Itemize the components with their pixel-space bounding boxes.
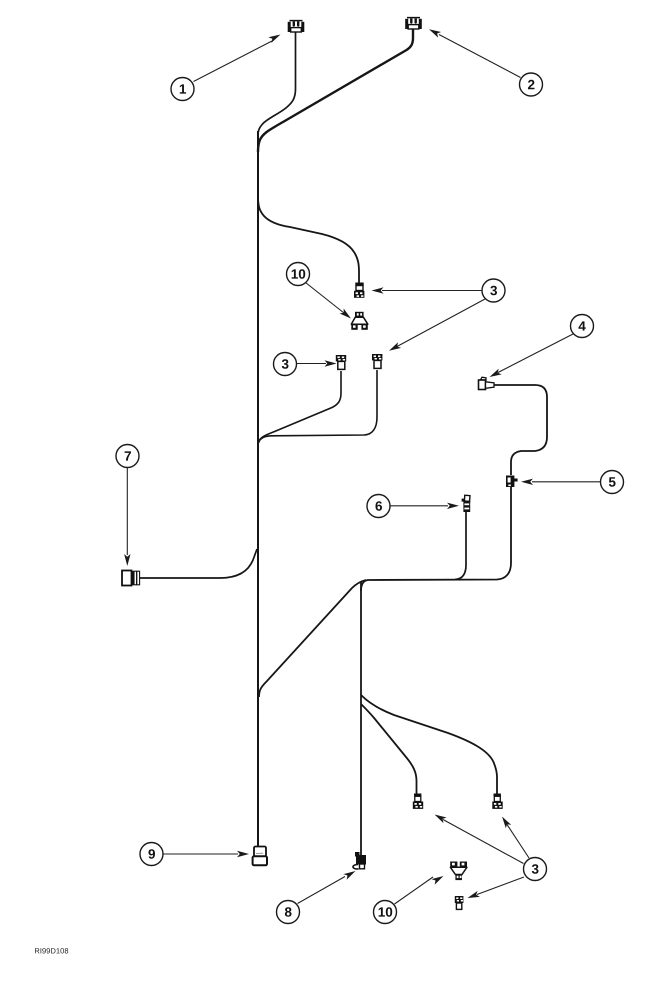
leader arrow 3c to right connector [499, 815, 529, 858]
connector 5 [506, 476, 518, 488]
connector 7 [122, 571, 140, 586]
connector 3b-left [336, 355, 346, 369]
callout circle 4 [571, 315, 594, 338]
connector 3a [354, 283, 364, 298]
leader arrow 7 [124, 468, 130, 566]
callout circle 10b [374, 901, 397, 924]
connector 3e small [455, 896, 464, 909]
branch wire to connector 3d-left [361, 704, 417, 795]
leader arrow 3c to small connector [466, 877, 524, 901]
connector 8 [353, 852, 366, 869]
leader arrow 2 [428, 26, 521, 77]
connector 1 [288, 21, 305, 32]
callout circle 8 [277, 901, 300, 924]
Y-adapter 10b [450, 862, 467, 881]
connector 3b-right [372, 354, 382, 368]
callout circle 9 [140, 843, 163, 866]
leader arrow 3a horizontal [372, 287, 482, 293]
leader arrow 6 [390, 503, 459, 509]
wire from connector 4 down to connector 5 [494, 385, 547, 475]
leader arrow 9 [164, 851, 250, 857]
connector 3d-left [413, 794, 423, 809]
main trunk wire [257, 131, 259, 846]
callout circle 3c [524, 858, 547, 881]
callout circle 7 [116, 445, 139, 468]
callout circle 3b [274, 353, 297, 376]
leader arrow 5 [521, 479, 600, 485]
callout circle 3a [482, 279, 505, 302]
Y-adapter 10a [351, 312, 368, 330]
figure label RI99D108 [35, 948, 68, 953]
callout circle 10a [287, 263, 310, 286]
wire from connector 5 down to bundle [361, 487, 511, 591]
connector 9 [253, 847, 267, 866]
wire from connector 3b-right to trunk [259, 370, 378, 443]
leader arrow 3c to left connector [433, 812, 524, 864]
callout circle 5 [601, 471, 624, 494]
leader arrow 10a [306, 283, 353, 322]
connector 4 [479, 377, 495, 389]
vertical wire to connector 8 [360, 582, 362, 856]
wire from connector 6 down to bundle [455, 512, 466, 580]
diagonal bundle wire down-left to trunk [259, 580, 366, 697]
leader arrow 3b [297, 360, 337, 366]
callout circle 1 [171, 78, 194, 101]
leader arrow 8 [298, 868, 358, 903]
wire from connector 1 to main trunk [258, 32, 296, 136]
leader arrow 10b [395, 873, 446, 904]
leader arrow 1 [194, 32, 282, 82]
wire from connector 3b-left to trunk [259, 371, 342, 442]
connector 2 [405, 18, 422, 29]
leader arrow 4 [488, 334, 573, 380]
wire branch to connector 3a [258, 196, 359, 283]
leader arrow 3a diagonal [387, 299, 485, 354]
branch wire to connector 3d-right [361, 695, 497, 794]
connector 3d-right [492, 794, 502, 809]
connector 6 [462, 495, 471, 512]
wire from connector 7 to trunk [140, 549, 257, 578]
callout circle 2 [520, 73, 543, 96]
callout circle 6 [367, 495, 390, 518]
wire from connector 2 to main trunk [258, 29, 413, 152]
